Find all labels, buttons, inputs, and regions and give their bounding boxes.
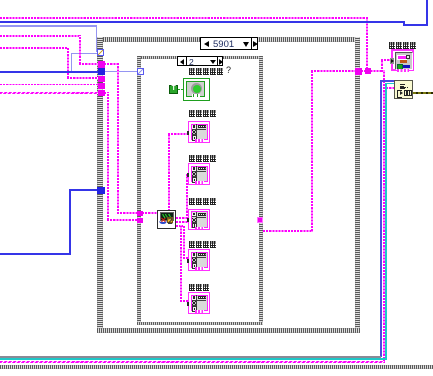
case structure 2 bottom border <box>137 322 263 326</box>
wire blue top right horizontal <box>403 24 428 26</box>
wire blue top horizontal <box>0 21 405 23</box>
node flatten-to-string <box>394 80 413 99</box>
cluster terminal diagnostic-response <box>391 49 414 72</box>
wire light blue inside y72 <box>104 71 138 73</box>
case structure 5901 bottom border <box>97 328 360 333</box>
wire gray-blue bottom row y357 <box>0 356 381 357</box>
wire magenta outside right y71 <box>361 70 383 72</box>
wire blue stub y81 into node <box>380 80 394 82</box>
wire magenta top horizontal <box>0 17 368 19</box>
wire light blue vertical x71 <box>71 53 73 72</box>
wire magenta vertical x181 down to fault-code <box>180 225 182 302</box>
label diagnostic-response <box>389 42 417 49</box>
wire blue vertical x70 <box>69 189 71 255</box>
wire magenta vertical x383.5 down <box>383 70 385 362</box>
subVI get-DTC <box>157 210 176 229</box>
case structure 2 top border <box>137 56 263 60</box>
label read-fault-code <box>189 68 224 75</box>
tunnel blue outer-left y71 <box>98 68 105 75</box>
case structure 5901 right border <box>355 37 361 333</box>
outer while-loop bottom border <box>0 365 433 370</box>
wire cyan vertical x385.5 <box>385 83 387 360</box>
label fault-system <box>189 155 217 162</box>
wire magenta array y92.5 from left <box>0 92 98 95</box>
indicator fault-unit <box>188 209 210 231</box>
wire light blue horizontal y26 <box>0 25 97 27</box>
wire magenta inner tunnelA to subVI <box>142 212 158 214</box>
wire blue y254 exits left <box>0 253 71 255</box>
wire blue step down <box>403 21 405 26</box>
wire magenta y64 into tunnel <box>79 63 99 65</box>
wire magenta bottom row y361.5 <box>0 361 385 364</box>
wire magenta vertical x184 down to fault-level <box>183 225 185 259</box>
wire cyan stub y83.5 into node <box>385 83 394 85</box>
wire magenta inside vertical x107.5 <box>107 92 109 220</box>
tunnel magenta outer-left y85.5 <box>98 83 105 89</box>
wire magenta y78 into tunnel <box>67 77 99 79</box>
wire magenta inner-right y230.5 <box>263 230 313 232</box>
wire magenta top vertical x367 <box>366 17 368 72</box>
wire magenta subVI stub1 y218 <box>176 217 187 219</box>
wire blue top right vertical to top edge <box>426 0 428 26</box>
wire cyan bottom row y359 <box>0 358 387 360</box>
tunnel magenta inner-left y220 <box>137 218 143 224</box>
wire magenta subVI stub3 y225.5 <box>176 225 185 227</box>
wire magenta up to cluster x381.5 <box>381 59 383 72</box>
wire magenta vertical x80 <box>79 35 81 64</box>
wire magenta y47.5 from left <box>0 47 68 49</box>
indicator fault-reason <box>188 121 210 143</box>
wire green dashed <box>178 89 184 90</box>
tunnel white outer-left <box>97 49 104 57</box>
wire magenta vertical x67 <box>67 47 69 78</box>
wire magenta to fault-reason icon y133 <box>168 133 189 135</box>
indicator fault-system <box>188 163 210 185</box>
wire magenta to fault-code icon y300.5 <box>180 300 189 302</box>
wire magenta subVI stub2 y221.5 to fault-unit <box>176 221 189 223</box>
label fault-unit <box>189 198 217 205</box>
wire magenta to fault-level icon y258 <box>183 257 189 259</box>
tunnel magenta outer-left y64 <box>98 61 105 68</box>
tunnel magenta outer-left y78 <box>98 76 105 83</box>
label fault-reason <box>189 110 217 117</box>
wire blue y190 tunnel to left <box>70 189 98 191</box>
tunnel magenta inner-left y213 <box>137 211 143 217</box>
case structure 2 right border <box>259 56 263 326</box>
wire magenta to fault-system icon y175 <box>186 174 190 176</box>
wire magenta inside y213 to inner tunnel <box>117 212 138 214</box>
case structure 5901 left border <box>97 37 103 333</box>
wire magenta inside from tunnel6 y93 <box>104 92 109 94</box>
case selector 2 <box>177 56 223 67</box>
tunnel magenta outer-right y71 <box>355 68 362 75</box>
cluster left nub <box>390 58 394 64</box>
wire magenta y36 from left <box>0 35 81 37</box>
label fault-level <box>189 241 217 248</box>
wire blue vertical x381 <box>380 80 382 357</box>
boolean LED terminal <box>183 78 210 101</box>
wire blue y71.5 from left <box>0 71 98 73</box>
tunnel magenta inner-right y219.5 <box>257 217 263 223</box>
wire magenta y71 to right border tunnel <box>311 70 357 72</box>
wire magenta inside from tunnel2 y64 <box>104 63 119 65</box>
boolean true constant <box>169 85 178 94</box>
wire magenta vertical x186.5 up to fault-system <box>186 174 188 219</box>
wire magenta dashed y84.5 from left <box>0 84 98 86</box>
case structure 5901 top border <box>97 37 360 42</box>
tunnel magenta outer-left y93 <box>98 90 105 96</box>
wire olive string output y93 <box>413 92 433 94</box>
tunnel white inner-left y72 <box>137 68 144 75</box>
case structure 2 left border <box>137 56 141 326</box>
wire magenta vertical x312 <box>311 70 313 231</box>
wire magenta branch y87.5 into node <box>383 87 395 89</box>
label fault-code <box>189 284 210 291</box>
wire light blue vertical x96 <box>96 25 98 52</box>
wire magenta subVI top vertical x168.5 <box>168 133 170 211</box>
indicator fault-code <box>188 292 210 314</box>
tunnel blue outer-left y190 <box>97 187 105 194</box>
wire junction dot <box>365 68 371 74</box>
wire light blue horizontal y53 <box>71 53 97 55</box>
wire magenta y60 into cluster <box>381 59 392 61</box>
wire magenta inside y219.5 to inner tunnel <box>107 219 138 221</box>
case selector 5901 <box>200 37 258 50</box>
wire magenta inside vertical x118 <box>117 63 119 214</box>
indicator fault-level <box>188 249 210 271</box>
